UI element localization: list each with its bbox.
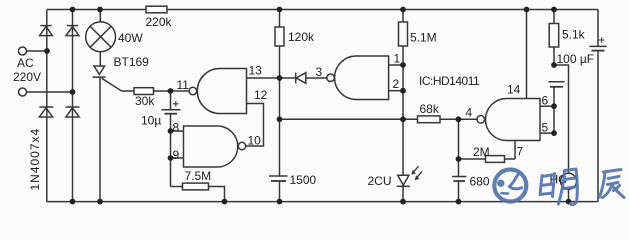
op-amp gate U1c pins 1 2 3 bbox=[327, 56, 389, 100]
svg-text:12: 12 bbox=[254, 88, 268, 102]
junction top rail pin14 bbox=[524, 7, 530, 13]
wire bridge column 1 bbox=[46, 10, 48, 202]
svg-text:14: 14 bbox=[507, 83, 521, 97]
thyristor BT169 bbox=[93, 55, 150, 91]
svg-text:120k: 120k bbox=[288, 30, 315, 44]
wire 68k row bbox=[280, 118, 478, 120]
diode D4 bbox=[66, 107, 80, 117]
watermark character ri bbox=[540, 174, 555, 197]
wire 10u to pins 8 9 bbox=[170, 114, 172, 187]
wire pin 5 stub bbox=[540, 132, 554, 134]
wire column 5.1k bbox=[553, 10, 555, 134]
svg-text:7: 7 bbox=[517, 145, 524, 159]
junction 5.1k node bbox=[551, 62, 557, 68]
junction AC L bbox=[44, 48, 50, 54]
resistor 2M bbox=[459, 145, 516, 162]
wire lamp column bbox=[99, 10, 101, 202]
svg-text:5: 5 bbox=[542, 121, 549, 135]
wire column 680 bbox=[458, 119, 460, 176]
wire to sounder HC bbox=[554, 65, 569, 173]
junction pin 13 node bbox=[277, 75, 283, 81]
svg-text:AC: AC bbox=[17, 56, 34, 70]
watermark logo ring bbox=[494, 170, 526, 202]
junction pin 9 bbox=[168, 155, 174, 161]
resistor 120k bbox=[275, 27, 315, 46]
resistor 30k bbox=[134, 88, 155, 108]
junction 2M node bbox=[456, 156, 462, 162]
wire column 5.1M bbox=[402, 10, 404, 176]
svg-text:3: 3 bbox=[316, 65, 323, 79]
wire pin 1 stub bbox=[389, 64, 403, 66]
junction top rail D2 bbox=[70, 7, 76, 13]
svg-text:6: 6 bbox=[542, 94, 549, 108]
wire centre column 120k bbox=[279, 10, 281, 177]
junction pin 2 bbox=[400, 88, 406, 94]
resistor 5.1k bbox=[549, 24, 585, 48]
op-amp gate U1d pins 5 6 4 bbox=[477, 99, 540, 141]
junction 120k 68k node bbox=[277, 116, 283, 122]
junction 68k pin 4 node bbox=[456, 116, 462, 122]
watermark character yue bbox=[559, 169, 578, 205]
junction bottom rail sounder bbox=[566, 199, 572, 205]
wire bottom rail bbox=[47, 201, 599, 203]
wire pin 12 to pin 10 bbox=[246, 104, 264, 147]
svg-text:10µ: 10µ bbox=[141, 114, 161, 128]
svg-text:IC:HD14011: IC:HD14011 bbox=[419, 74, 480, 88]
svg-text:2M: 2M bbox=[473, 145, 490, 159]
wire pin 2 stub bbox=[389, 90, 403, 92]
capacitor 680 bbox=[452, 175, 490, 202]
label AC 220V bbox=[13, 56, 41, 84]
svg-text:4: 4 bbox=[466, 106, 473, 120]
svg-text:1: 1 bbox=[394, 52, 401, 66]
resistor 5.1M bbox=[399, 22, 437, 46]
lamp EL 40W bbox=[86, 22, 144, 52]
wire pin 8 stub bbox=[171, 130, 184, 132]
svg-text:BT169: BT169 bbox=[114, 55, 150, 69]
svg-text:30k: 30k bbox=[135, 94, 155, 108]
junction bottom rail thyristor bbox=[97, 199, 103, 205]
wire AC N to bridge bbox=[27, 91, 73, 93]
junction top rail lamp bbox=[97, 7, 103, 13]
watermark character chen bbox=[600, 170, 625, 198]
svg-text:68k: 68k bbox=[420, 102, 440, 116]
junction 68k 5.1M node bbox=[400, 116, 406, 122]
diode D1 bbox=[40, 26, 53, 36]
junction bottom rail D4 bbox=[70, 199, 76, 205]
wire pin 7 VSS bbox=[514, 141, 516, 160]
junction pin 5 bbox=[551, 130, 557, 136]
terminal AC N bbox=[19, 88, 27, 96]
svg-text:1N4007x4: 1N4007x4 bbox=[28, 128, 42, 191]
junction top rail 5.1k bbox=[551, 7, 557, 13]
junction bottom rail 1500 bbox=[277, 199, 283, 205]
junction gate node 30k bbox=[168, 88, 174, 94]
junction bottom rail 7.5M bbox=[222, 199, 228, 205]
terminal AC L bbox=[19, 47, 27, 55]
capacitor 100uF electrolytic bbox=[590, 10, 607, 202]
wire AC L to bridge bbox=[27, 50, 48, 52]
svg-text:1500: 1500 bbox=[290, 173, 317, 187]
svg-text:7.5M: 7.5M bbox=[185, 169, 212, 183]
diode D3 bbox=[39, 107, 53, 117]
svg-text:2: 2 bbox=[393, 77, 400, 91]
junction bottom rail 2CU bbox=[400, 199, 406, 205]
wire bridge column 2 bbox=[72, 10, 74, 202]
junction AC N bbox=[70, 89, 76, 95]
capacitor at pins 5 6 bbox=[549, 82, 565, 87]
svg-text:680: 680 bbox=[470, 175, 490, 189]
junction bottom rail 680 bbox=[456, 199, 462, 205]
svg-text:9: 9 bbox=[173, 148, 180, 162]
svg-text:5.1k: 5.1k bbox=[562, 28, 586, 42]
wire top supply rail bbox=[47, 9, 598, 11]
wire gate to 30k bbox=[122, 90, 135, 92]
junction top rail 5.1M bbox=[400, 7, 406, 13]
resistor 68k bbox=[418, 102, 441, 123]
capacitor 10u electrolytic bbox=[141, 91, 181, 128]
svg-text:220V: 220V bbox=[13, 70, 41, 84]
svg-text:220k: 220k bbox=[146, 15, 173, 29]
diode D5 bbox=[280, 73, 327, 84]
junction top rail 120k bbox=[277, 7, 283, 13]
wire pin 9 stub bbox=[171, 157, 184, 159]
photodiode 2CU bbox=[368, 166, 423, 201]
wire pin 6 stub bbox=[540, 105, 554, 107]
resistor 7.5M bbox=[171, 169, 225, 202]
svg-text:5.1M: 5.1M bbox=[410, 31, 437, 45]
svg-text:13: 13 bbox=[249, 64, 263, 78]
resistor 220k bbox=[146, 6, 173, 29]
wire pin 14 VDD bbox=[526, 10, 528, 99]
svg-text:11: 11 bbox=[177, 78, 190, 92]
svg-text:10: 10 bbox=[248, 134, 262, 148]
svg-text:40W: 40W bbox=[118, 31, 143, 45]
svg-text:2CU: 2CU bbox=[368, 174, 392, 188]
capacitor 1500 bbox=[269, 173, 317, 202]
junction pin 6 bbox=[551, 103, 557, 109]
junction pin 1 bbox=[400, 62, 406, 68]
junction pin 8 bbox=[168, 128, 174, 134]
op-amp gate U1a pins 13 12 11 bbox=[189, 69, 247, 114]
wire 30k to gate U1a output bbox=[154, 90, 190, 92]
svg-text:100 µF: 100 µF bbox=[557, 52, 595, 66]
diode D2 bbox=[66, 26, 79, 36]
op-amp gate U1b pins 8 9 10 bbox=[184, 126, 246, 167]
svg-text:8: 8 bbox=[173, 121, 180, 135]
wire pin 13 stub bbox=[247, 77, 280, 79]
sounder HC bbox=[550, 173, 577, 202]
